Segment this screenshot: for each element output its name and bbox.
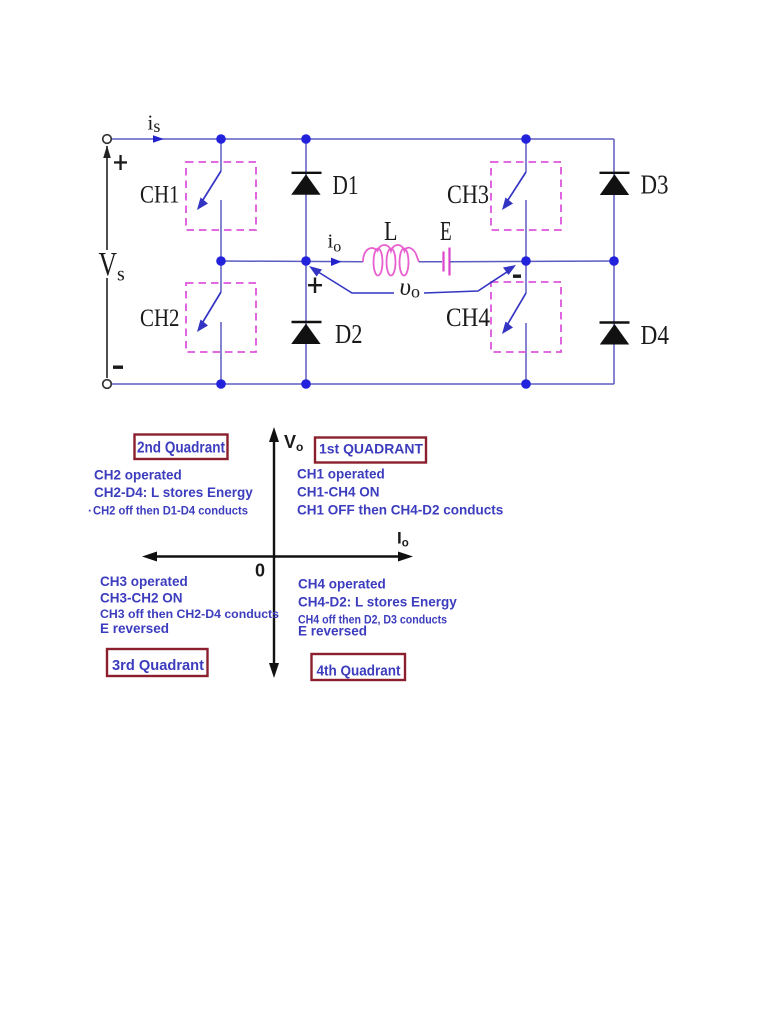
wire CH1 top xyxy=(220,139,222,171)
terminal top-left xyxy=(103,135,112,144)
label D2 xyxy=(335,318,363,349)
svg-text:CH2 operated: CH2 operated xyxy=(94,468,182,483)
switch CH2 dashed box xyxy=(186,283,256,352)
node top CH3 xyxy=(521,134,531,144)
svg-text:CH2 off then D1-D4 conducts: CH2 off then D1-D4 conducts xyxy=(93,504,248,518)
label CH4 xyxy=(446,302,490,332)
label plus (vo) xyxy=(308,278,322,294)
wire middle left xyxy=(221,260,363,263)
switch CH1 dashed box xyxy=(186,162,256,230)
box 3rd Quadrant xyxy=(107,649,208,676)
svg-text:CH2: CH2 xyxy=(140,303,180,332)
label E xyxy=(440,215,452,246)
text quadrant 3 xyxy=(100,574,279,636)
text quadrant 4 xyxy=(298,577,457,639)
diode D1 xyxy=(291,173,321,195)
switch CH3 arrow xyxy=(502,172,526,210)
label D3 xyxy=(641,169,669,200)
svg-text:CH1-CH4 ON: CH1-CH4 ON xyxy=(297,485,380,500)
svg-text:4th Quadrant: 4th Quadrant xyxy=(317,663,401,680)
wire bottom rail xyxy=(107,383,614,385)
text quadrant 1 xyxy=(297,467,503,518)
switch CH2 arrow xyxy=(197,292,221,332)
svg-text:Io: Io xyxy=(397,529,409,550)
box 1st QUADRANT xyxy=(315,438,426,463)
label Vs xyxy=(99,246,126,286)
switch CH4 dashed box xyxy=(491,282,561,352)
switch CH1 arrow xyxy=(197,171,221,210)
switch CH3 fixed contact xyxy=(525,200,527,261)
axis horizontal Io xyxy=(142,552,413,562)
svg-text:D1: D1 xyxy=(333,169,359,200)
svg-text:CH1 operated: CH1 operated xyxy=(297,467,385,482)
switch CH1 fixed contact xyxy=(220,200,222,261)
vo measure line right xyxy=(424,265,516,293)
vo measure line left xyxy=(309,266,394,293)
svg-text:E reversed: E reversed xyxy=(100,621,169,636)
svg-text:CH1 OFF then CH4-D2 conducts: CH1 OFF then CH4-D2 conducts xyxy=(297,503,503,518)
label Io axis xyxy=(397,529,409,550)
svg-text:·: · xyxy=(88,504,92,518)
svg-text:CH4: CH4 xyxy=(446,302,490,332)
svg-text:D2: D2 xyxy=(335,318,363,349)
wire cap to CH3 node xyxy=(450,260,614,263)
label vo xyxy=(400,274,420,302)
switch CH2 fixed contact xyxy=(220,322,222,384)
svg-text:CH4 operated: CH4 operated xyxy=(298,577,386,592)
wire CH4 top xyxy=(525,261,527,293)
svg-text:CH1: CH1 xyxy=(140,180,180,209)
label D1 xyxy=(333,169,359,200)
svg-text:0: 0 xyxy=(255,561,265,581)
wire CH3 top xyxy=(525,139,527,172)
inductor L xyxy=(363,245,419,276)
label 0 origin xyxy=(255,561,265,581)
label D4 xyxy=(641,319,670,350)
wire coil to cap xyxy=(419,261,442,263)
svg-text:is: is xyxy=(148,111,161,137)
diode D3 xyxy=(600,173,630,195)
svg-text:CH3 operated: CH3 operated xyxy=(100,574,188,589)
node mid D1-D2 xyxy=(301,256,311,266)
svg-text:CH4-D2: L stores Energy: CH4-D2: L stores Energy xyxy=(298,595,457,610)
label plus (source) xyxy=(114,155,127,170)
svg-text:Vo: Vo xyxy=(284,432,303,454)
node top CH1 xyxy=(216,134,226,144)
svg-text:E: E xyxy=(440,215,452,246)
label Vo axis xyxy=(284,432,303,454)
svg-text:D4: D4 xyxy=(641,319,670,350)
switch CH4 arrow xyxy=(502,293,526,334)
label minus (vo) xyxy=(513,275,521,278)
switch CH4 fixed contact xyxy=(525,323,527,384)
battery E xyxy=(444,248,450,276)
label io xyxy=(328,231,342,256)
label CH1 xyxy=(140,180,180,209)
svg-text:3rd Quadrant: 3rd Quadrant xyxy=(112,657,204,674)
node mid CH3-CH4 xyxy=(521,256,531,266)
svg-text:io: io xyxy=(328,231,342,256)
wire CH2 top xyxy=(220,261,222,292)
svg-text:L: L xyxy=(384,215,398,246)
node mid D3-D4 xyxy=(609,256,619,266)
source Vs arrow line xyxy=(103,146,111,379)
box 2nd Quadrant xyxy=(135,435,228,460)
switch CH3 dashed box xyxy=(491,162,561,230)
label L xyxy=(384,215,398,246)
svg-text:CH3-CH2 ON: CH3-CH2 ON xyxy=(100,591,183,606)
svg-text:E reversed: E reversed xyxy=(298,624,367,639)
node bottom D2 xyxy=(301,379,311,389)
svg-text:D3: D3 xyxy=(641,169,669,200)
text quadrant 2 xyxy=(88,468,253,518)
label minus (source) xyxy=(113,366,123,369)
axis vertical Vo xyxy=(269,427,279,678)
svg-text:CH2-D4: L stores Energy: CH2-D4: L stores Energy xyxy=(94,485,253,500)
svg-text:υo: υo xyxy=(400,274,420,302)
label CH3 xyxy=(447,180,489,209)
arrow io xyxy=(331,258,342,266)
arrow is xyxy=(153,135,164,143)
node top D1 xyxy=(301,134,311,144)
label is xyxy=(148,111,161,137)
node bottom CH2 xyxy=(216,379,226,389)
node mid CH1-CH2 xyxy=(216,256,226,266)
wire D1-D2 column xyxy=(305,139,307,384)
wire right rail xyxy=(613,139,615,384)
svg-text:Vs: Vs xyxy=(99,246,126,286)
diode D2 xyxy=(291,322,321,344)
svg-text:1st QUADRANT: 1st QUADRANT xyxy=(319,441,423,457)
svg-text:CH3: CH3 xyxy=(447,180,489,209)
diode D4 xyxy=(600,323,630,345)
svg-text:CH3 off then CH2-D4 conducts: CH3 off then CH2-D4 conducts xyxy=(100,607,279,621)
node bottom CH4 xyxy=(521,379,531,389)
svg-text:2nd Quadrant: 2nd Quadrant xyxy=(137,440,225,457)
label CH2 xyxy=(140,303,180,332)
wire top rail xyxy=(107,138,614,140)
box 4th Quadrant xyxy=(312,654,406,680)
terminal bottom-left xyxy=(103,380,112,389)
